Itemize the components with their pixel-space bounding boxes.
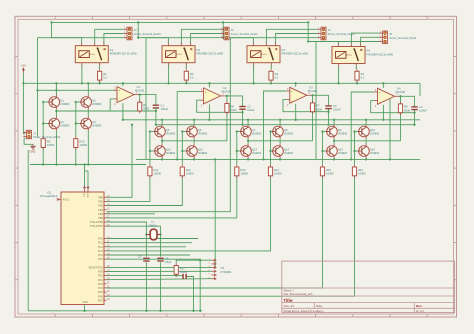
svg-text:PC5: PC5 [98, 257, 104, 261]
wire C3 down [328, 109, 330, 125]
junction [236, 150, 238, 152]
junction [176, 158, 178, 160]
wire relay K1 pin to R1 [99, 65, 101, 69]
svg-text:Screw_Terminal_01x03: Screw_Terminal_01x03 [389, 36, 417, 40]
junction [279, 119, 281, 121]
svg-text:5.1: 5.1 [190, 76, 194, 80]
svg-text:10000: 10000 [326, 171, 334, 175]
wire MCU PD0 to FTDI [107, 270, 212, 272]
svg-text:2N3904: 2N3904 [198, 151, 208, 155]
wire R7 down [312, 112, 314, 141]
wire J5 pin2 to relay K4 [361, 37, 380, 44]
wire collector up [55, 83, 57, 95]
wire CE link [87, 109, 89, 117]
junction [241, 111, 243, 113]
svg-text:PC0: PC0 [98, 237, 104, 241]
junction [161, 119, 163, 121]
wire MCU PC y246.8 [107, 246, 187, 248]
connector J4 [318, 27, 355, 40]
junction [270, 82, 272, 84]
svg-text:ATmega328-A: ATmega328-A [40, 194, 58, 198]
wire J1 pin1 [23, 133, 25, 135]
wire opamp4 out to R [399, 96, 401, 106]
wire R1 bottom [99, 80, 101, 83]
wire opamp3 feedback [283, 100, 329, 112]
transistor Q8 [272, 125, 294, 139]
wire CE link [55, 109, 57, 117]
junction [55, 82, 57, 84]
junction [311, 111, 313, 113]
power +5V [21, 64, 26, 73]
wire emitter down [365, 158, 367, 159]
wire CE link [161, 139, 163, 145]
wire base A2 [182, 131, 185, 133]
wire base col B [354, 132, 356, 165]
wire +5V drop ch4 [307, 22, 309, 41]
capacitor C3 [325, 104, 341, 111]
svg-text:10000: 10000 [154, 171, 162, 175]
junction [175, 274, 177, 276]
svg-text:+5V: +5V [21, 64, 26, 68]
wire opamp4 out to C [401, 96, 415, 107]
junction [55, 163, 57, 165]
junction [192, 310, 194, 312]
wire left GND column [27, 150, 29, 311]
svg-text:R14: R14 [274, 168, 279, 172]
svg-text:2N3906: 2N3906 [92, 102, 102, 106]
resistor R5 [138, 100, 150, 113]
resistor R10 [74, 137, 88, 150]
junction [81, 82, 83, 84]
capacitor [143, 258, 149, 261]
svg-text:PB0: PB0 [98, 195, 103, 199]
wire collector up [279, 120, 281, 125]
svg-text:PD1: PD1 [98, 274, 104, 278]
wire opamp3 +in sense [264, 91, 287, 159]
svg-text:PC4: PC4 [98, 253, 104, 257]
svg-text:GND: GND [30, 150, 36, 154]
junction [181, 130, 183, 132]
wire opamp2 out to C [227, 96, 243, 107]
wire base A1 [237, 131, 240, 133]
svg-text:PB1: PB1 [98, 200, 103, 204]
wire base col A [42, 102, 44, 137]
svg-text:Size: A4: Size: A4 [284, 304, 295, 308]
svg-text:100uF: 100uF [333, 108, 341, 112]
wire mid tap ch1 [56, 110, 139, 112]
svg-text:Q1: Q1 [60, 98, 64, 102]
wire R5 down [139, 110, 141, 112]
wire base col B [181, 132, 183, 165]
transistor Q15 [326, 144, 348, 158]
junction [42, 163, 44, 165]
svg-text:Q12: Q12 [198, 147, 203, 151]
transistor Q9 [326, 125, 348, 139]
transistor Q5 [154, 125, 176, 139]
svg-text:10000: 10000 [358, 171, 366, 175]
wire relay K4 pin to R4 [355, 66, 357, 69]
svg-text:PC1: PC1 [98, 241, 104, 245]
junction [333, 140, 335, 142]
junction [353, 150, 355, 152]
svg-text:U1: U1 [137, 85, 141, 89]
junction [75, 122, 77, 124]
wire collector up [333, 120, 335, 125]
svg-text:2N3904: 2N3904 [370, 151, 380, 155]
transistor Q16 [358, 144, 380, 158]
svg-text:Screw_Terminal_01x02: Screw_Terminal_01x02 [33, 135, 61, 139]
wire emitter down [247, 158, 249, 159]
wire J2 pin2 to relay K1 [104, 34, 124, 44]
svg-text:Q10: Q10 [370, 128, 375, 132]
svg-text:2N3904: 2N3904 [166, 151, 176, 155]
resistor R7 [310, 101, 322, 114]
junction [333, 119, 335, 121]
junction [321, 130, 323, 132]
wire R13 to MCU PB5 [107, 176, 237, 218]
junction [307, 40, 309, 42]
junction [137, 37, 139, 39]
svg-text:5.1: 5.1 [103, 76, 107, 80]
junction [155, 124, 157, 126]
junction [236, 130, 238, 132]
svg-text:J5: J5 [389, 32, 392, 36]
wire MCU GND pin [84, 305, 86, 311]
wire base A2 [76, 101, 80, 103]
svg-text:2N3906: 2N3906 [370, 131, 380, 135]
wire base col A [236, 132, 238, 165]
junction [199, 310, 201, 312]
wire MCU PD2 to FTDI [107, 279, 212, 280]
svg-text:R2: R2 [190, 72, 194, 76]
junction [55, 89, 57, 91]
relay K4 [332, 43, 394, 70]
svg-text:R9: R9 [47, 140, 51, 144]
svg-text:2N3904: 2N3904 [252, 151, 262, 155]
wire opamp1 out to R [139, 95, 140, 105]
svg-text:Screw_Terminal_01x03: Screw_Terminal_01x03 [231, 32, 259, 36]
wire MCU PB4 stub [107, 213, 156, 215]
connector J5 [379, 31, 416, 44]
wire R17 to C7 [176, 275, 183, 277]
svg-text:2N3906: 2N3906 [252, 131, 262, 135]
resistor R3 [269, 69, 279, 82]
junction [247, 158, 249, 160]
junction [241, 124, 243, 126]
wire opamp2 out to R [225, 96, 227, 106]
svg-text:PD4: PD4 [98, 286, 104, 290]
junction [353, 130, 355, 132]
wire J2 pin1 to relay K1 [95, 29, 124, 43]
junction [145, 233, 147, 235]
resistor R11 [148, 165, 162, 178]
junction [365, 119, 367, 121]
wire CE link [247, 139, 249, 145]
wire opamp2 V- [208, 104, 210, 119]
junction [413, 112, 415, 114]
svg-text:10000: 10000 [79, 143, 87, 147]
wire relay K4 coil- down [338, 66, 340, 84]
junction [356, 82, 358, 84]
wire MCU PC4 [107, 254, 191, 256]
wire XTAL2 [107, 226, 161, 229]
svg-text:Q6: Q6 [198, 128, 202, 132]
svg-text:FRA05R-S(Z.2)-u400: FRA05R-S(Z.2)-u400 [110, 52, 137, 56]
capacitor C7 [183, 274, 186, 279]
wire rail C [156, 124, 415, 126]
junction [50, 21, 52, 23]
junction [208, 119, 210, 121]
svg-text:Rev:: Rev: [416, 304, 423, 308]
junction [98, 82, 100, 84]
svg-text:Q7: Q7 [252, 128, 256, 132]
junction [252, 82, 254, 84]
op-amp U3 [287, 86, 318, 107]
svg-text:FRA05R-S(Z.2)-u400: FRA05R-S(Z.2)-u400 [197, 52, 224, 56]
junction [185, 82, 187, 84]
svg-text:Title:: Title: [284, 298, 294, 303]
junction [295, 82, 297, 84]
junction [87, 82, 89, 84]
wire opamp1 +in [38, 89, 114, 91]
junction [311, 94, 313, 96]
wire C5 to gnd [145, 262, 147, 311]
junction [159, 233, 161, 235]
junction [145, 310, 147, 312]
junction [122, 119, 124, 121]
svg-text:U4: U4 [397, 87, 401, 91]
wire +5V drop ch1 [51, 22, 53, 37]
svg-text:Date:: Date: [316, 304, 323, 308]
wire base B2 [76, 123, 80, 125]
junction [36, 89, 38, 91]
junction [149, 150, 151, 152]
crystal Y1 16MHz [146, 220, 160, 240]
svg-text:2N3906: 2N3906 [338, 131, 348, 135]
resistor R8 [398, 102, 410, 115]
wire base B2 [355, 150, 358, 152]
junction [122, 82, 124, 84]
op-amp U4 [374, 87, 405, 108]
junction [155, 110, 157, 112]
wire to relay K2 NC pin [138, 38, 168, 44]
svg-text:-: - [291, 99, 292, 103]
wire relay K3 pin to R3 [270, 65, 272, 69]
svg-text:R1: R1 [103, 72, 107, 76]
wire CE link [279, 139, 281, 145]
wire relay K2 pin to R2 [185, 65, 187, 69]
wire J3 pin2 to relay K2 [191, 34, 221, 44]
resistor R4 [355, 69, 365, 82]
svg-text:FRA05R-S(Z.2)-u400: FRA05R-S(Z.2)-u400 [367, 52, 394, 56]
svg-text:PD0: PD0 [98, 270, 104, 274]
svg-text:PD3: PD3 [98, 282, 104, 286]
wire collector up [247, 120, 249, 125]
wire R9 riser [42, 148, 44, 165]
wire R11 to MCU PB1 [107, 176, 150, 202]
wire relay K1 coil- down [81, 65, 83, 83]
svg-text:5000: 5000 [316, 107, 322, 111]
transistor Q7 [240, 125, 262, 139]
resistor R6 [225, 101, 237, 114]
wire drop ch4 [315, 42, 317, 160]
svg-text:R12: R12 [186, 168, 191, 172]
wire base A2 [355, 131, 358, 133]
wire base col A [322, 132, 324, 165]
wire J5 pin3 left [316, 41, 379, 43]
wire collector up [161, 120, 163, 125]
svg-text:J1: J1 [33, 131, 36, 135]
junction [279, 158, 281, 160]
junction [131, 124, 133, 126]
junction [226, 111, 228, 113]
op-amp U2 [200, 86, 231, 107]
svg-text:R7: R7 [316, 104, 320, 108]
wire J4 pin1 to relay K3 [266, 29, 317, 43]
connector J2 [124, 27, 161, 40]
svg-text:R10: R10 [79, 140, 84, 144]
wire MCU PD1 to R17 [107, 275, 177, 277]
svg-text:R13: R13 [240, 168, 245, 172]
junction [226, 95, 228, 97]
wire +5V drop ch2 [137, 22, 139, 37]
wire opamp3 V- [295, 104, 297, 120]
wire base A1 [150, 131, 154, 133]
wire R17 top to FTDI pin1 [176, 260, 211, 263]
connector J3 [221, 27, 258, 40]
wire J4 pin2 to relay K3 [276, 34, 318, 44]
svg-text:KiCad E.D.A. kicad 6.0.2+dfsg: KiCad E.D.A. kicad 6.0.2+dfsg-1 [284, 309, 325, 313]
svg-text:XTAL1/PB6: XTAL1/PB6 [90, 220, 104, 224]
junction [159, 310, 161, 312]
svg-text:Screw_Terminal_01x03: Screw_Terminal_01x03 [134, 32, 162, 36]
wire collector up [87, 83, 89, 95]
wire MCU PC y238.5 [107, 238, 199, 240]
wire crystal right down [160, 229, 162, 257]
svg-text:PD7: PD7 [98, 298, 104, 302]
junction [161, 158, 163, 160]
junction [269, 150, 271, 152]
wire J1 pin2 to GND [24, 138, 33, 144]
ground [30, 144, 36, 153]
wire J2 pin3 left [38, 37, 124, 39]
capacitor C4 [411, 105, 427, 112]
wire R14 to MCU PC3 [107, 176, 271, 251]
svg-text:U3: U3 [309, 86, 313, 90]
transistor Q6 [186, 125, 208, 139]
svg-text:R17: R17 [180, 266, 185, 270]
svg-text:5000: 5000 [143, 107, 149, 111]
junction [295, 119, 297, 121]
connector U5 FT232RL [209, 259, 233, 280]
title block [282, 261, 455, 313]
junction [137, 21, 139, 23]
svg-text:+: + [118, 89, 120, 93]
svg-text:J4: J4 [328, 28, 331, 32]
svg-text:2N3906: 2N3906 [60, 102, 70, 106]
wire opamp3 V+ [295, 83, 297, 87]
wire R12 to MCU PB2 [107, 176, 183, 206]
wire rail A [23, 82, 420, 84]
svg-text:2N3906: 2N3906 [284, 131, 294, 135]
svg-text:10000: 10000 [47, 143, 55, 147]
wire R4 bottom [356, 80, 358, 83]
wire opamp3 out to R [311, 95, 312, 105]
relay K1 [75, 42, 137, 69]
svg-text:Q4: Q4 [92, 120, 96, 124]
junction [161, 140, 163, 142]
wire rail E left [30, 164, 146, 166]
wire relay K2 coil- down [168, 65, 170, 83]
svg-text:C4: C4 [419, 105, 423, 109]
wire C1 down [155, 108, 157, 125]
wire emitter down [193, 158, 195, 159]
wire CE link [333, 139, 335, 145]
svg-text:GND: GND [83, 302, 88, 304]
junction [55, 110, 57, 112]
svg-text:2N3906: 2N3906 [166, 131, 176, 135]
wire opamp1 V+ [122, 83, 124, 86]
wire base B1 [237, 150, 240, 152]
svg-text:PC2: PC2 [98, 245, 104, 249]
wire mid tap [248, 140, 312, 142]
junction [389, 158, 391, 160]
resistor R2 [184, 69, 194, 82]
svg-text:R8: R8 [404, 105, 408, 109]
svg-text:-: - [205, 100, 206, 104]
junction [247, 140, 249, 142]
junction [83, 163, 85, 165]
svg-text:2N3904: 2N3904 [284, 151, 294, 155]
svg-text:C2: C2 [247, 105, 251, 109]
junction [365, 158, 367, 160]
junction [149, 130, 151, 132]
connector J1 [23, 130, 60, 139]
wire drop ch3 to MCU PB2 [107, 38, 231, 212]
wire CE link [193, 139, 195, 145]
wire MCU PC y242.7 [107, 242, 193, 244]
capacitor C2 [239, 105, 255, 112]
wire R2 bottom [185, 80, 187, 83]
capacitor C6 [157, 257, 171, 264]
wire rail B [123, 119, 420, 121]
svg-text:C1: C1 [161, 103, 165, 107]
svg-text:10000: 10000 [180, 270, 188, 274]
svg-text:Q2: Q2 [92, 98, 96, 102]
wire rail A right drop [419, 83, 421, 96]
wire base B1 [323, 150, 326, 152]
capacitor C1 [153, 103, 169, 110]
wire opamp1 out to C [140, 95, 156, 106]
wire C7 down [186, 277, 193, 311]
wire opamp4 V+ [382, 83, 384, 88]
wire base B1 [150, 150, 154, 152]
junction [181, 150, 183, 152]
svg-text:C5: C5 [138, 254, 142, 258]
junction [382, 119, 384, 121]
wire to relay K3 NC pin [223, 38, 253, 44]
svg-text:R11: R11 [154, 168, 159, 172]
wire base A1 [43, 101, 48, 103]
svg-text:C3: C3 [333, 104, 337, 108]
junction [139, 93, 141, 95]
wire base B2 [271, 150, 272, 152]
wire rail D emitters [136, 158, 420, 160]
wire C4 down [414, 110, 416, 125]
wire AVCC drop [87, 171, 89, 188]
svg-text:Q15: Q15 [338, 147, 343, 151]
svg-text:XTAL2/PB7: XTAL2/PB7 [90, 224, 104, 228]
